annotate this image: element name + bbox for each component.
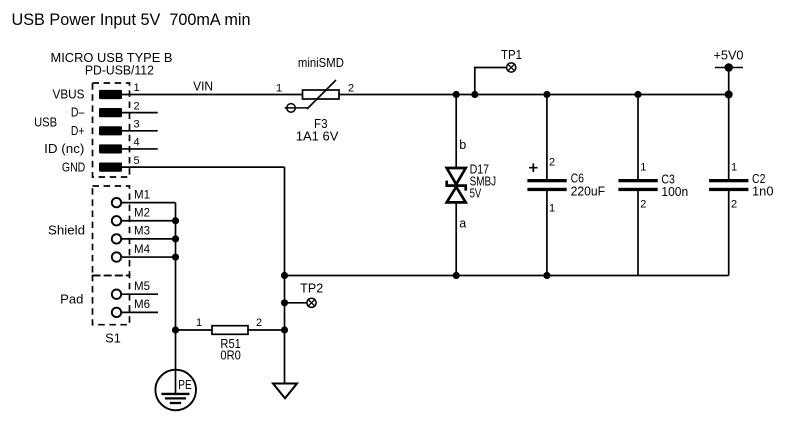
fuse theta symbol xyxy=(287,104,296,113)
junction dot C6 bottom xyxy=(543,272,550,279)
svg-text:1A1 6V: 1A1 6V xyxy=(296,130,339,144)
wire M4 xyxy=(121,256,175,258)
junction dot C3 top xyxy=(634,91,641,98)
mount pin M6 circle xyxy=(112,308,121,317)
svg-text:1: 1 xyxy=(276,83,282,95)
svg-text:b: b xyxy=(459,138,466,152)
svg-text:100n: 100n xyxy=(661,185,688,199)
connector S1 dashed box (shield M1-M4) xyxy=(93,186,130,276)
svg-text:2: 2 xyxy=(731,199,737,211)
mount pin M1 circle xyxy=(112,198,121,207)
pin 2 pad xyxy=(99,108,122,117)
test point TP2 symbol xyxy=(307,298,316,307)
wire TP2 stub xyxy=(285,302,308,304)
svg-text:+5V0: +5V0 xyxy=(714,49,744,63)
wire M1 xyxy=(121,202,175,204)
TVS diode D17 top triangle xyxy=(447,168,466,184)
earth PE symbol xyxy=(155,370,196,411)
svg-text:220uF: 220uF xyxy=(571,185,606,199)
pin 4 pad xyxy=(99,144,122,153)
wire bottom GND rail xyxy=(285,275,729,277)
TVS diode D17 bottom triangle xyxy=(447,187,466,203)
svg-text:VBUS: VBUS xyxy=(53,87,85,101)
wire M6 stub xyxy=(121,311,158,313)
svg-text:M5: M5 xyxy=(134,281,150,293)
junction dot TP2 xyxy=(281,299,288,306)
junction dot GND rail left xyxy=(281,272,288,279)
junction dot R51 pin2 xyxy=(281,326,288,333)
wire C2 +5V0 vertical xyxy=(728,68,730,181)
svg-text:1: 1 xyxy=(549,202,555,214)
svg-text:2: 2 xyxy=(256,317,262,329)
svg-text:M4: M4 xyxy=(134,244,151,256)
wire pin3 stub xyxy=(122,130,158,132)
svg-text:3: 3 xyxy=(134,119,140,131)
junction dot M3 xyxy=(172,235,179,242)
wire C6 vertical xyxy=(546,95,548,181)
junction dot D17 bottom xyxy=(453,272,460,279)
mount pin M4 circle xyxy=(112,252,121,261)
capacitor C2 plates xyxy=(709,179,748,182)
svg-text:USB: USB xyxy=(34,115,57,129)
svg-text:1n0: 1n0 xyxy=(752,185,774,199)
wire VIN rail pin1 to fuse xyxy=(122,94,303,96)
svg-text:5V: 5V xyxy=(470,187,482,201)
power symbol +5V0 xyxy=(715,63,743,72)
svg-text:1: 1 xyxy=(640,161,646,173)
wire C3 vertical xyxy=(637,95,639,181)
svg-text:2: 2 xyxy=(348,83,354,95)
capacitor C6 plates xyxy=(527,179,566,182)
mount pin M3 circle xyxy=(112,234,121,243)
junction dot R51 pin1 xyxy=(172,326,179,333)
wire fuse to +5V0 rail xyxy=(339,94,729,96)
svg-text:S1: S1 xyxy=(105,331,121,346)
junction dot C6 top xyxy=(543,91,550,98)
wire shield bus vertical xyxy=(175,203,177,394)
svg-text:C3: C3 xyxy=(661,172,674,186)
svg-text:PD-USB/112: PD-USB/112 xyxy=(85,63,154,78)
capacitor C6 plus sign xyxy=(529,163,538,172)
svg-text:M6: M6 xyxy=(134,299,150,311)
svg-text:TP2: TP2 xyxy=(300,282,323,296)
pin 3 pad xyxy=(99,126,122,135)
ground symbol triangle xyxy=(273,384,297,399)
svg-text:D–: D– xyxy=(71,106,85,120)
svg-text:a: a xyxy=(459,217,466,231)
capacitor C3 plates xyxy=(618,179,657,182)
test point TP1 symbol xyxy=(507,63,516,72)
svg-text:PE: PE xyxy=(178,378,191,392)
svg-text:1: 1 xyxy=(134,82,140,94)
wire D17 bottom xyxy=(455,202,457,276)
svg-text:USB Power Input 5V 700mA min: USB Power Input 5V 700mA min xyxy=(12,10,251,29)
connector S1 dashed box (pins 1-5) xyxy=(93,83,130,177)
TVS diode D17 crossbar xyxy=(447,181,466,191)
svg-text:2: 2 xyxy=(549,157,555,169)
wire GND vertical drop xyxy=(284,167,286,383)
svg-text:4: 4 xyxy=(134,137,140,149)
svg-text:M2: M2 xyxy=(134,208,150,220)
wire GND pin5 horizontal xyxy=(122,166,285,168)
svg-text:VIN: VIN xyxy=(193,79,213,93)
svg-text:C6: C6 xyxy=(571,171,584,185)
junction dot D17 top xyxy=(453,91,460,98)
junction dot M4 xyxy=(172,253,179,260)
pin 1 pad xyxy=(99,90,122,99)
svg-text:M3: M3 xyxy=(134,226,150,238)
fuse F3 diagonal stroke xyxy=(307,80,336,109)
svg-text:miniSMD: miniSMD xyxy=(298,56,344,70)
svg-text:Pad: Pad xyxy=(60,293,83,307)
wire M5 stub xyxy=(121,293,158,295)
wire M2 xyxy=(121,220,175,222)
svg-text:0R0: 0R0 xyxy=(220,348,241,362)
wire R51 pin1 xyxy=(176,329,213,331)
svg-text:TP1: TP1 xyxy=(501,48,522,62)
mount pin M5 circle xyxy=(112,290,121,299)
junction dot TP1 xyxy=(471,91,478,98)
wire D17 top xyxy=(455,95,457,169)
svg-text:5: 5 xyxy=(134,155,140,167)
junction dot +5V0 rail xyxy=(725,91,733,99)
wire pin2 stub xyxy=(122,112,158,114)
svg-text:GND: GND xyxy=(62,160,85,174)
svg-text:1: 1 xyxy=(196,317,202,329)
svg-text:2: 2 xyxy=(640,199,646,211)
junction dot M2 xyxy=(172,217,179,224)
svg-text:ID (nc): ID (nc) xyxy=(44,142,84,156)
svg-text:Shield: Shield xyxy=(48,224,85,238)
wire TP1 riser xyxy=(475,68,507,95)
svg-text:M1: M1 xyxy=(134,189,150,201)
pin 5 pad xyxy=(99,163,122,172)
wire pin4 stub xyxy=(122,148,158,150)
wire R51 pin2 xyxy=(248,329,285,331)
svg-text:1: 1 xyxy=(731,161,737,173)
svg-text:D+: D+ xyxy=(71,124,85,138)
wire M3 xyxy=(121,238,175,240)
mount pin M2 circle xyxy=(112,216,121,225)
svg-text:2: 2 xyxy=(134,100,140,112)
fuse F3 body xyxy=(303,90,340,99)
resistor R51 body xyxy=(212,326,248,335)
connector S1 dashed box (pad M5-M6) xyxy=(93,276,130,325)
